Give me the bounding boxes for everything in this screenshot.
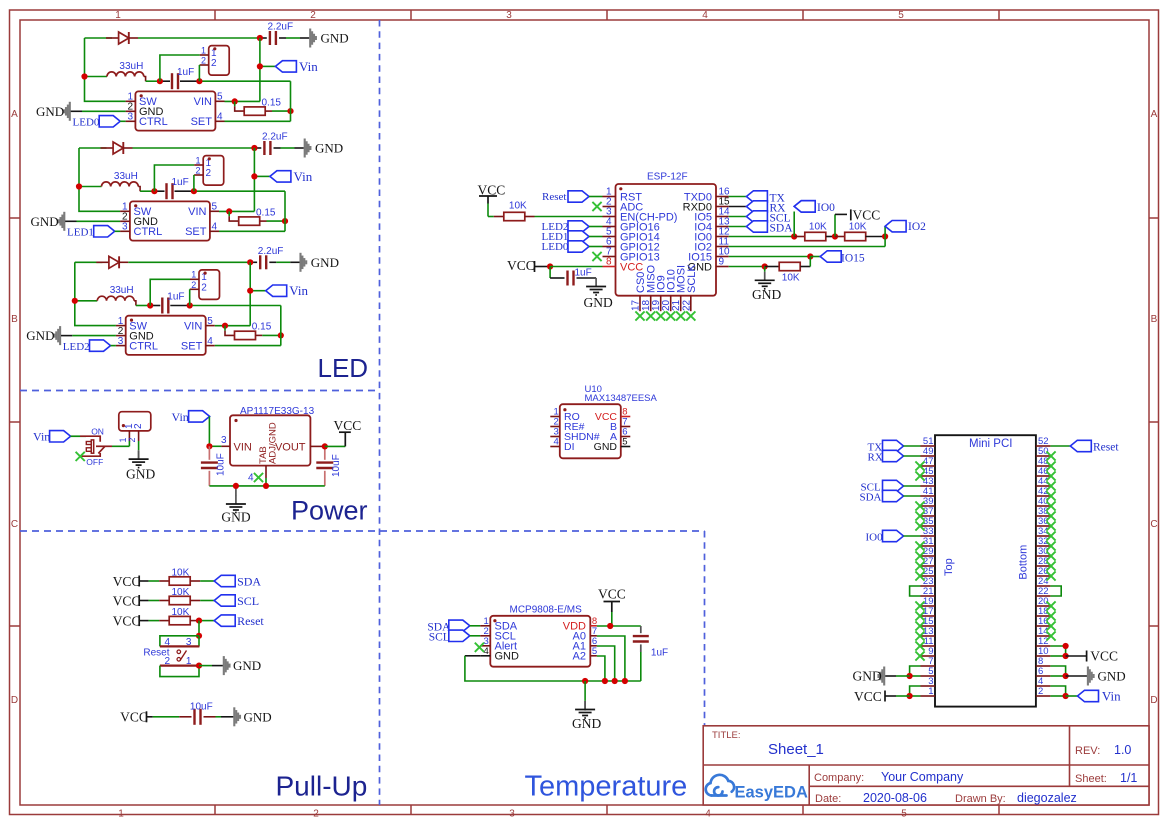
power port VCC (regulator output)	[344, 433, 346, 447]
svg-text:LED: LED	[318, 353, 369, 383]
svg-text:Sheet:: Sheet:	[1075, 773, 1107, 785]
svg-text:5: 5	[207, 316, 213, 327]
wire - Vin to switch	[71, 435, 86, 437]
svg-text:1: 1	[118, 809, 124, 820]
svg-text:10K: 10K	[172, 607, 190, 618]
svg-text:CTRL: CTRL	[134, 226, 163, 238]
wire - IO2 row (pin 11)	[729, 246, 885, 248]
wire - sensor ground bus	[585, 680, 641, 682]
ground port GND block 1 top right	[309, 29, 311, 48]
svg-text:GND: GND	[233, 658, 261, 673]
junction - button to ground	[196, 663, 202, 669]
net flag SCL (ESP)	[729, 216, 747, 218]
svg-text:GND: GND	[244, 709, 272, 724]
svg-text:33uH: 33uH	[119, 61, 143, 72]
svg-text:3: 3	[221, 435, 227, 446]
svg-text:VCC: VCC	[120, 709, 148, 724]
svg-text:1uF: 1uF	[167, 291, 184, 302]
net flag Vin (power input)	[50, 431, 71, 442]
svg-text:RX: RX	[868, 452, 883, 464]
net flag LED0	[99, 116, 120, 127]
svg-text:SET: SET	[191, 116, 213, 128]
svg-text:1: 1	[195, 155, 200, 165]
svg-text:CTRL: CTRL	[139, 116, 168, 128]
net flag IO15	[810, 256, 820, 258]
svg-text:22: 22	[681, 299, 692, 311]
svg-text:VCC: VCC	[113, 613, 141, 628]
no-connect X on ADC pin	[592, 202, 601, 211]
svg-text:GND: GND	[221, 510, 250, 525]
diode D3	[96, 261, 109, 263]
resistor 10K (Reset)	[149, 620, 160, 622]
connector P4 (power jack)	[119, 412, 151, 431]
ground port GND block 2 top right	[304, 139, 306, 158]
svg-text:2: 2	[211, 58, 217, 69]
svg-text:33uH: 33uH	[110, 285, 134, 296]
wire - diode to cap junction	[138, 37, 260, 39]
wire - LED block 3 left vertical	[75, 262, 116, 325]
svg-text:MCP9808-E/MS: MCP9808-E/MS	[510, 605, 583, 616]
svg-text:2: 2	[127, 437, 137, 442]
diode D1	[106, 37, 119, 39]
svg-text:GND: GND	[36, 104, 64, 119]
ground port GND block 3 left	[59, 326, 61, 345]
inductor 33uH block 1	[85, 76, 108, 78]
svg-text:0.15: 0.15	[262, 97, 282, 108]
svg-text:GND: GND	[1098, 669, 1126, 684]
net flag TX (Mini PCI pin 51)	[883, 440, 904, 451]
svg-text:3: 3	[127, 112, 133, 123]
svg-text:10uF: 10uF	[190, 701, 213, 712]
net flag LED1	[94, 226, 115, 237]
net flag Vin block 2	[254, 175, 270, 177]
svg-text:GND: GND	[572, 716, 601, 731]
capacitor 10uF (output)	[324, 446, 326, 459]
svg-text:IO0: IO0	[817, 202, 835, 214]
connector P1 (LED output)	[209, 46, 230, 76]
ground port GND block 3 top right	[299, 253, 301, 272]
svg-text:A: A	[11, 109, 18, 120]
svg-text:4: 4	[207, 336, 213, 347]
svg-text:3: 3	[118, 336, 124, 347]
svg-text:VIN: VIN	[234, 442, 252, 454]
ground port GND (button)	[199, 665, 212, 667]
svg-text:IO15: IO15	[841, 252, 865, 264]
svg-text:1/1: 1/1	[1120, 771, 1137, 785]
svg-text:10K: 10K	[172, 587, 190, 598]
capacitor 1uF (sensor)	[640, 626, 642, 633]
svg-text:Reset: Reset	[1093, 442, 1119, 454]
svg-text:Reset: Reset	[143, 648, 169, 659]
wire - connector pin2 riser	[198, 65, 200, 81]
resistor 10K (enable pull-up)	[488, 216, 494, 218]
capacitor 1uF (ESP decoupling)	[549, 267, 551, 279]
svg-text:Reset: Reset	[542, 191, 566, 203]
svg-text:4: 4	[705, 809, 711, 820]
capacitor 10uF (decoupling)	[153, 716, 180, 718]
svg-text:VCC: VCC	[507, 258, 535, 273]
svg-text:SCLK: SCLK	[686, 264, 698, 293]
wire - diode to cap junction	[133, 147, 255, 149]
svg-text:4: 4	[554, 437, 559, 448]
svg-text:Temperature: Temperature	[525, 771, 688, 803]
resistor 10K (IO15 pull-down)	[765, 266, 779, 268]
wire - pins 8/6 to GND	[1050, 666, 1065, 676]
wire - ground bus (power)	[209, 485, 324, 487]
wire - loop pins 24-22	[1050, 586, 1061, 596]
svg-text:VCC: VCC	[854, 689, 882, 704]
ground GND (ESP decoupling)	[595, 278, 597, 287]
junction - top rail	[247, 259, 253, 265]
wire - SET row block 1	[225, 120, 291, 122]
no-connect X marks (Mini PCI right)	[1046, 451, 1055, 460]
svg-text:10K: 10K	[172, 568, 190, 579]
svg-text:GND: GND	[584, 295, 613, 310]
no-connect X marks (Mini PCI left)	[915, 461, 924, 470]
svg-text:VCC: VCC	[598, 586, 626, 601]
regulator U3 (LED driver)	[126, 316, 206, 355]
svg-text:10uF: 10uF	[331, 454, 342, 477]
ground port GND (Mini PCI right)	[1066, 675, 1087, 677]
svg-text:LED0: LED0	[73, 117, 100, 129]
wire - 1uF to right riser	[194, 190, 285, 192]
net flag SDA (Mini PCI pin 41)	[883, 490, 904, 501]
wire - 1uF to right riser	[190, 305, 281, 307]
svg-text:4: 4	[702, 10, 708, 21]
svg-text:GND: GND	[315, 141, 343, 156]
svg-text:Mini PCI: Mini PCI	[969, 438, 1012, 450]
wire - Vin riser block 2	[253, 148, 255, 211]
wire - connector pin1 riser	[160, 55, 200, 81]
svg-text:8: 8	[606, 257, 612, 268]
wire - reset to button	[198, 621, 200, 636]
svg-text:2: 2	[201, 283, 207, 294]
regulator U2 (LED driver)	[130, 201, 210, 240]
svg-text:D: D	[1150, 695, 1157, 706]
svg-text:B: B	[1151, 314, 1158, 325]
ground GND (switch)	[138, 450, 140, 459]
wire - connector pin2 to ground	[138, 441, 140, 450]
junction - top rail	[251, 145, 257, 151]
svg-text:1: 1	[191, 270, 196, 280]
svg-text:1uF: 1uF	[177, 67, 194, 78]
svg-text:3: 3	[506, 10, 512, 21]
net flag IO0 (Mini PCI pin 33)	[883, 530, 904, 541]
wire - A0 to ground bus	[597, 636, 625, 681]
push button SW2 (Reset)	[160, 636, 199, 647]
wire - sensor GND loop	[465, 655, 480, 657]
wire - right riser block 3	[280, 306, 282, 346]
wire - VIN row block 2	[219, 210, 254, 212]
resistor 10K (SDA)	[149, 580, 160, 582]
svg-text:C: C	[11, 519, 18, 530]
svg-text:DI: DI	[564, 441, 575, 453]
svg-text:33uH: 33uH	[114, 171, 138, 182]
svg-text:LED1: LED1	[67, 227, 94, 239]
ground GND (ESP pin9)	[764, 267, 766, 272]
svg-text:EasyEDA: EasyEDA	[735, 784, 808, 802]
junction - reset node	[196, 618, 202, 624]
svg-text:2: 2	[310, 10, 316, 21]
wire - connector pin1 riser	[150, 279, 190, 305]
wire - VIN row block 3	[215, 325, 250, 327]
svg-text:1: 1	[201, 45, 206, 55]
wire - VIN row block 1	[225, 100, 260, 102]
svg-text:1: 1	[186, 656, 192, 667]
net flag RX	[729, 206, 747, 208]
wire - VDD row	[597, 625, 641, 627]
svg-text:VIN: VIN	[188, 206, 206, 218]
svg-text:1uF: 1uF	[651, 647, 668, 658]
ground port GND (Mini PCI left)	[885, 675, 896, 677]
wire - right riser block 2	[284, 191, 286, 231]
svg-text:4: 4	[212, 222, 218, 233]
inductor 33uH block 2	[79, 186, 102, 188]
net flag LED2	[90, 340, 111, 351]
svg-text:2.2uF: 2.2uF	[258, 246, 284, 257]
svg-text:GND: GND	[31, 214, 59, 229]
svg-text:9: 9	[719, 257, 725, 268]
wire - Vin riser block 1	[259, 38, 261, 101]
svg-text:Vin: Vin	[172, 410, 189, 424]
Mini PCI right pins (even 52..2)	[1036, 445, 1051, 447]
svg-text:5: 5	[901, 809, 907, 820]
svg-text:5: 5	[217, 92, 223, 103]
svg-text:VCC: VCC	[1090, 649, 1118, 664]
svg-text:ADJ/GND: ADJ/GND	[268, 422, 279, 464]
svg-text:Sheet_1: Sheet_1	[768, 741, 824, 758]
svg-text:5: 5	[592, 646, 597, 657]
svg-text:5: 5	[898, 10, 904, 21]
svg-text:SCL: SCL	[429, 631, 450, 643]
svg-text:VCC: VCC	[620, 261, 643, 273]
svg-text:4: 4	[248, 473, 254, 484]
svg-text:REV:: REV:	[1075, 745, 1100, 757]
svg-text:Vin: Vin	[294, 169, 313, 184]
svg-text:10K: 10K	[849, 222, 867, 233]
wire - IO15 row (pin 10)	[729, 256, 811, 258]
svg-text:ESP-12F: ESP-12F	[647, 172, 688, 183]
wire - loop pins 23-21	[910, 586, 921, 596]
svg-text:2.2uF: 2.2uF	[262, 132, 288, 143]
svg-text:2: 2	[133, 423, 144, 429]
svg-text:GND: GND	[126, 466, 155, 481]
svg-text:1: 1	[928, 686, 933, 697]
svg-text:GND: GND	[853, 669, 882, 684]
svg-text:1uF: 1uF	[172, 177, 189, 188]
wire - IO0 row (pin 12)	[729, 236, 795, 238]
capacitor 10uF (input)	[208, 446, 210, 460]
svg-text:3: 3	[186, 637, 192, 648]
svg-text:B: B	[11, 314, 18, 325]
svg-text:1uF: 1uF	[575, 268, 592, 279]
svg-text:VOUT: VOUT	[275, 442, 306, 454]
svg-text:SET: SET	[185, 226, 207, 238]
inductor 33uH block 3	[75, 300, 98, 302]
svg-text:2: 2	[1038, 686, 1043, 697]
svg-text:LED0: LED0	[542, 241, 569, 253]
svg-text:5: 5	[212, 202, 218, 213]
Mini PCI left pins (odd 51..1)	[921, 445, 936, 447]
wire - connector pin1 to switch	[128, 441, 130, 446]
svg-text:GND: GND	[26, 328, 54, 343]
svg-text:0.15: 0.15	[256, 207, 276, 218]
resistor 0.15 block 3	[224, 326, 226, 331]
net flag Reset (Mini PCI pin 52)	[1050, 445, 1070, 447]
ground GND (power)	[235, 486, 237, 496]
svg-text:VCC: VCC	[113, 574, 141, 589]
svg-text:Pull-Up: Pull-Up	[276, 771, 368, 802]
svg-text:GND: GND	[321, 31, 349, 46]
svg-text:A2: A2	[573, 651, 586, 663]
wire - Vin riser block 3	[249, 262, 251, 325]
svg-text:SDA: SDA	[770, 222, 794, 234]
wire - LED block 2 top rail	[79, 147, 107, 149]
wire - connector pin1 riser	[154, 165, 194, 191]
connector P3 (LED output)	[199, 270, 220, 300]
capacitor 2.2uF block 2	[254, 147, 261, 149]
svg-text:CTRL: CTRL	[129, 341, 158, 353]
svg-text:0.15: 0.15	[252, 322, 272, 333]
net flag IO2	[884, 226, 886, 236]
ground port GND block 2 left	[63, 212, 65, 231]
svg-text:ON: ON	[91, 426, 104, 436]
wire - LED block 2 left vertical	[79, 148, 120, 211]
net flag SDA	[200, 580, 214, 582]
connector P2 (LED output)	[203, 156, 224, 186]
svg-text:SDA: SDA	[860, 492, 882, 504]
svg-text:IO0: IO0	[866, 532, 884, 544]
svg-text:1: 1	[115, 10, 121, 21]
svg-text:Your Company: Your Company	[881, 770, 964, 784]
svg-text:diegozalez: diegozalez	[1017, 791, 1077, 805]
svg-text:Company:: Company:	[814, 772, 864, 784]
svg-text:Top: Top	[943, 558, 955, 576]
svg-text:2: 2	[313, 809, 319, 820]
svg-text:GND: GND	[495, 651, 520, 663]
ground GND (sensor)	[584, 681, 586, 701]
resistor 10K (IO2 pull-up)	[835, 236, 845, 238]
net flag Vin block 1	[260, 65, 276, 67]
svg-text:1.0: 1.0	[1114, 743, 1131, 757]
diode D2	[101, 147, 114, 149]
wire - pins 4/2 to Vin	[1050, 686, 1065, 696]
junction - top rail	[257, 35, 263, 41]
svg-text:A: A	[1151, 109, 1158, 120]
wire - LED block 1 top rail	[85, 37, 113, 39]
svg-text:Vin: Vin	[289, 283, 308, 298]
capacitor 1uF block 3	[136, 305, 150, 307]
svg-text:2.2uF: 2.2uF	[268, 22, 294, 33]
svg-text:VCC: VCC	[113, 593, 141, 608]
svg-text:17: 17	[631, 299, 642, 311]
svg-text:GND: GND	[752, 287, 781, 302]
svg-text:MAX13487EESA: MAX13487EESA	[585, 393, 658, 404]
svg-text:Power: Power	[291, 496, 368, 526]
power port VCC (IO pull-ups)	[834, 214, 836, 236]
svg-text:SET: SET	[181, 341, 203, 353]
svg-text:2: 2	[195, 166, 200, 176]
net flag SDA (ESP)	[729, 226, 747, 228]
svg-text:2: 2	[201, 56, 206, 66]
svg-text:4: 4	[165, 637, 171, 648]
connector CN1 Mini PCI	[935, 435, 1036, 706]
no-connect X on Alert pin	[475, 643, 484, 652]
svg-text:Date:: Date:	[815, 793, 841, 805]
wire - A1 to ground bus	[597, 646, 615, 681]
svg-text:Vin: Vin	[1102, 689, 1121, 704]
wire - right riser block 1	[290, 81, 292, 121]
wire - connector pin2 riser	[189, 289, 191, 305]
wire - 10K to EN pin	[535, 216, 603, 218]
no-connect X on GPIO13 pin	[592, 252, 601, 261]
svg-text:VCC: VCC	[334, 418, 362, 433]
regulator U1 (LED driver)	[135, 91, 215, 130]
capacitor 1uF block 2	[140, 190, 154, 192]
svg-text:VIN: VIN	[184, 321, 202, 333]
capacitor 2.2uF block 1	[260, 37, 267, 39]
svg-text:10K: 10K	[509, 201, 527, 212]
wire - SET row block 3	[215, 345, 281, 347]
net flag Reset	[200, 620, 214, 622]
svg-text:5: 5	[622, 437, 627, 448]
svg-text:Reset: Reset	[237, 614, 264, 628]
svg-text:10K: 10K	[782, 272, 800, 283]
svg-text:TITLE:: TITLE:	[712, 730, 741, 741]
svg-text:GND: GND	[594, 441, 618, 453]
net flag Vin (Mini PCI)	[1066, 695, 1078, 697]
wire - diode to cap junction	[128, 261, 250, 263]
svg-text:D: D	[11, 695, 18, 706]
wire - connector pin2 riser	[193, 175, 195, 191]
svg-text:Vin: Vin	[33, 430, 50, 444]
wire - GND row (pin 9)	[729, 266, 765, 268]
svg-text:2: 2	[206, 168, 212, 179]
svg-text:SDA: SDA	[237, 575, 261, 589]
svg-text:GND: GND	[311, 255, 339, 270]
wire - 1uF to right riser	[199, 80, 290, 82]
title block frame	[703, 726, 1149, 805]
svg-text:LED2: LED2	[63, 341, 90, 353]
wire - LED block 1 left vertical	[85, 38, 126, 101]
capacitor 2.2uF block 3	[250, 261, 257, 263]
svg-text:VIN: VIN	[194, 96, 212, 108]
capacitor 1uF block 1	[146, 80, 160, 82]
wire - pins 7/5 to GND	[910, 666, 921, 676]
svg-text:3: 3	[509, 809, 515, 820]
svg-text:Drawn By:: Drawn By:	[955, 793, 1006, 805]
power port VCC (Mini PCI right)	[1066, 655, 1087, 657]
wire - A2 to ground bus	[597, 656, 605, 681]
wire - pins 3/1 to VCC	[910, 686, 921, 696]
resistor 0.15 block 2	[228, 211, 230, 216]
EasyEDA logo	[706, 775, 734, 796]
svg-text:4: 4	[217, 112, 223, 123]
no-connect X marks on ESP bottom pins	[635, 311, 644, 320]
net flag RX (Mini PCI pin 49)	[883, 450, 904, 461]
resistor 10K (IO0 pull-up)	[794, 236, 804, 238]
svg-text:3: 3	[122, 222, 128, 233]
svg-text:OFF: OFF	[86, 457, 103, 467]
svg-text:IO2: IO2	[908, 221, 926, 233]
svg-text:10K: 10K	[809, 222, 827, 233]
wire - pins 12/10 to VCC	[1050, 646, 1065, 656]
pin 4 of U5 with no-connect X	[265, 466, 267, 478]
ground port GND (decoupling)	[216, 716, 222, 718]
ground port GND block 1 left	[69, 102, 71, 121]
section divider dashed lines	[379, 20, 381, 805]
wire - VOUT to VCC	[310, 445, 324, 447]
